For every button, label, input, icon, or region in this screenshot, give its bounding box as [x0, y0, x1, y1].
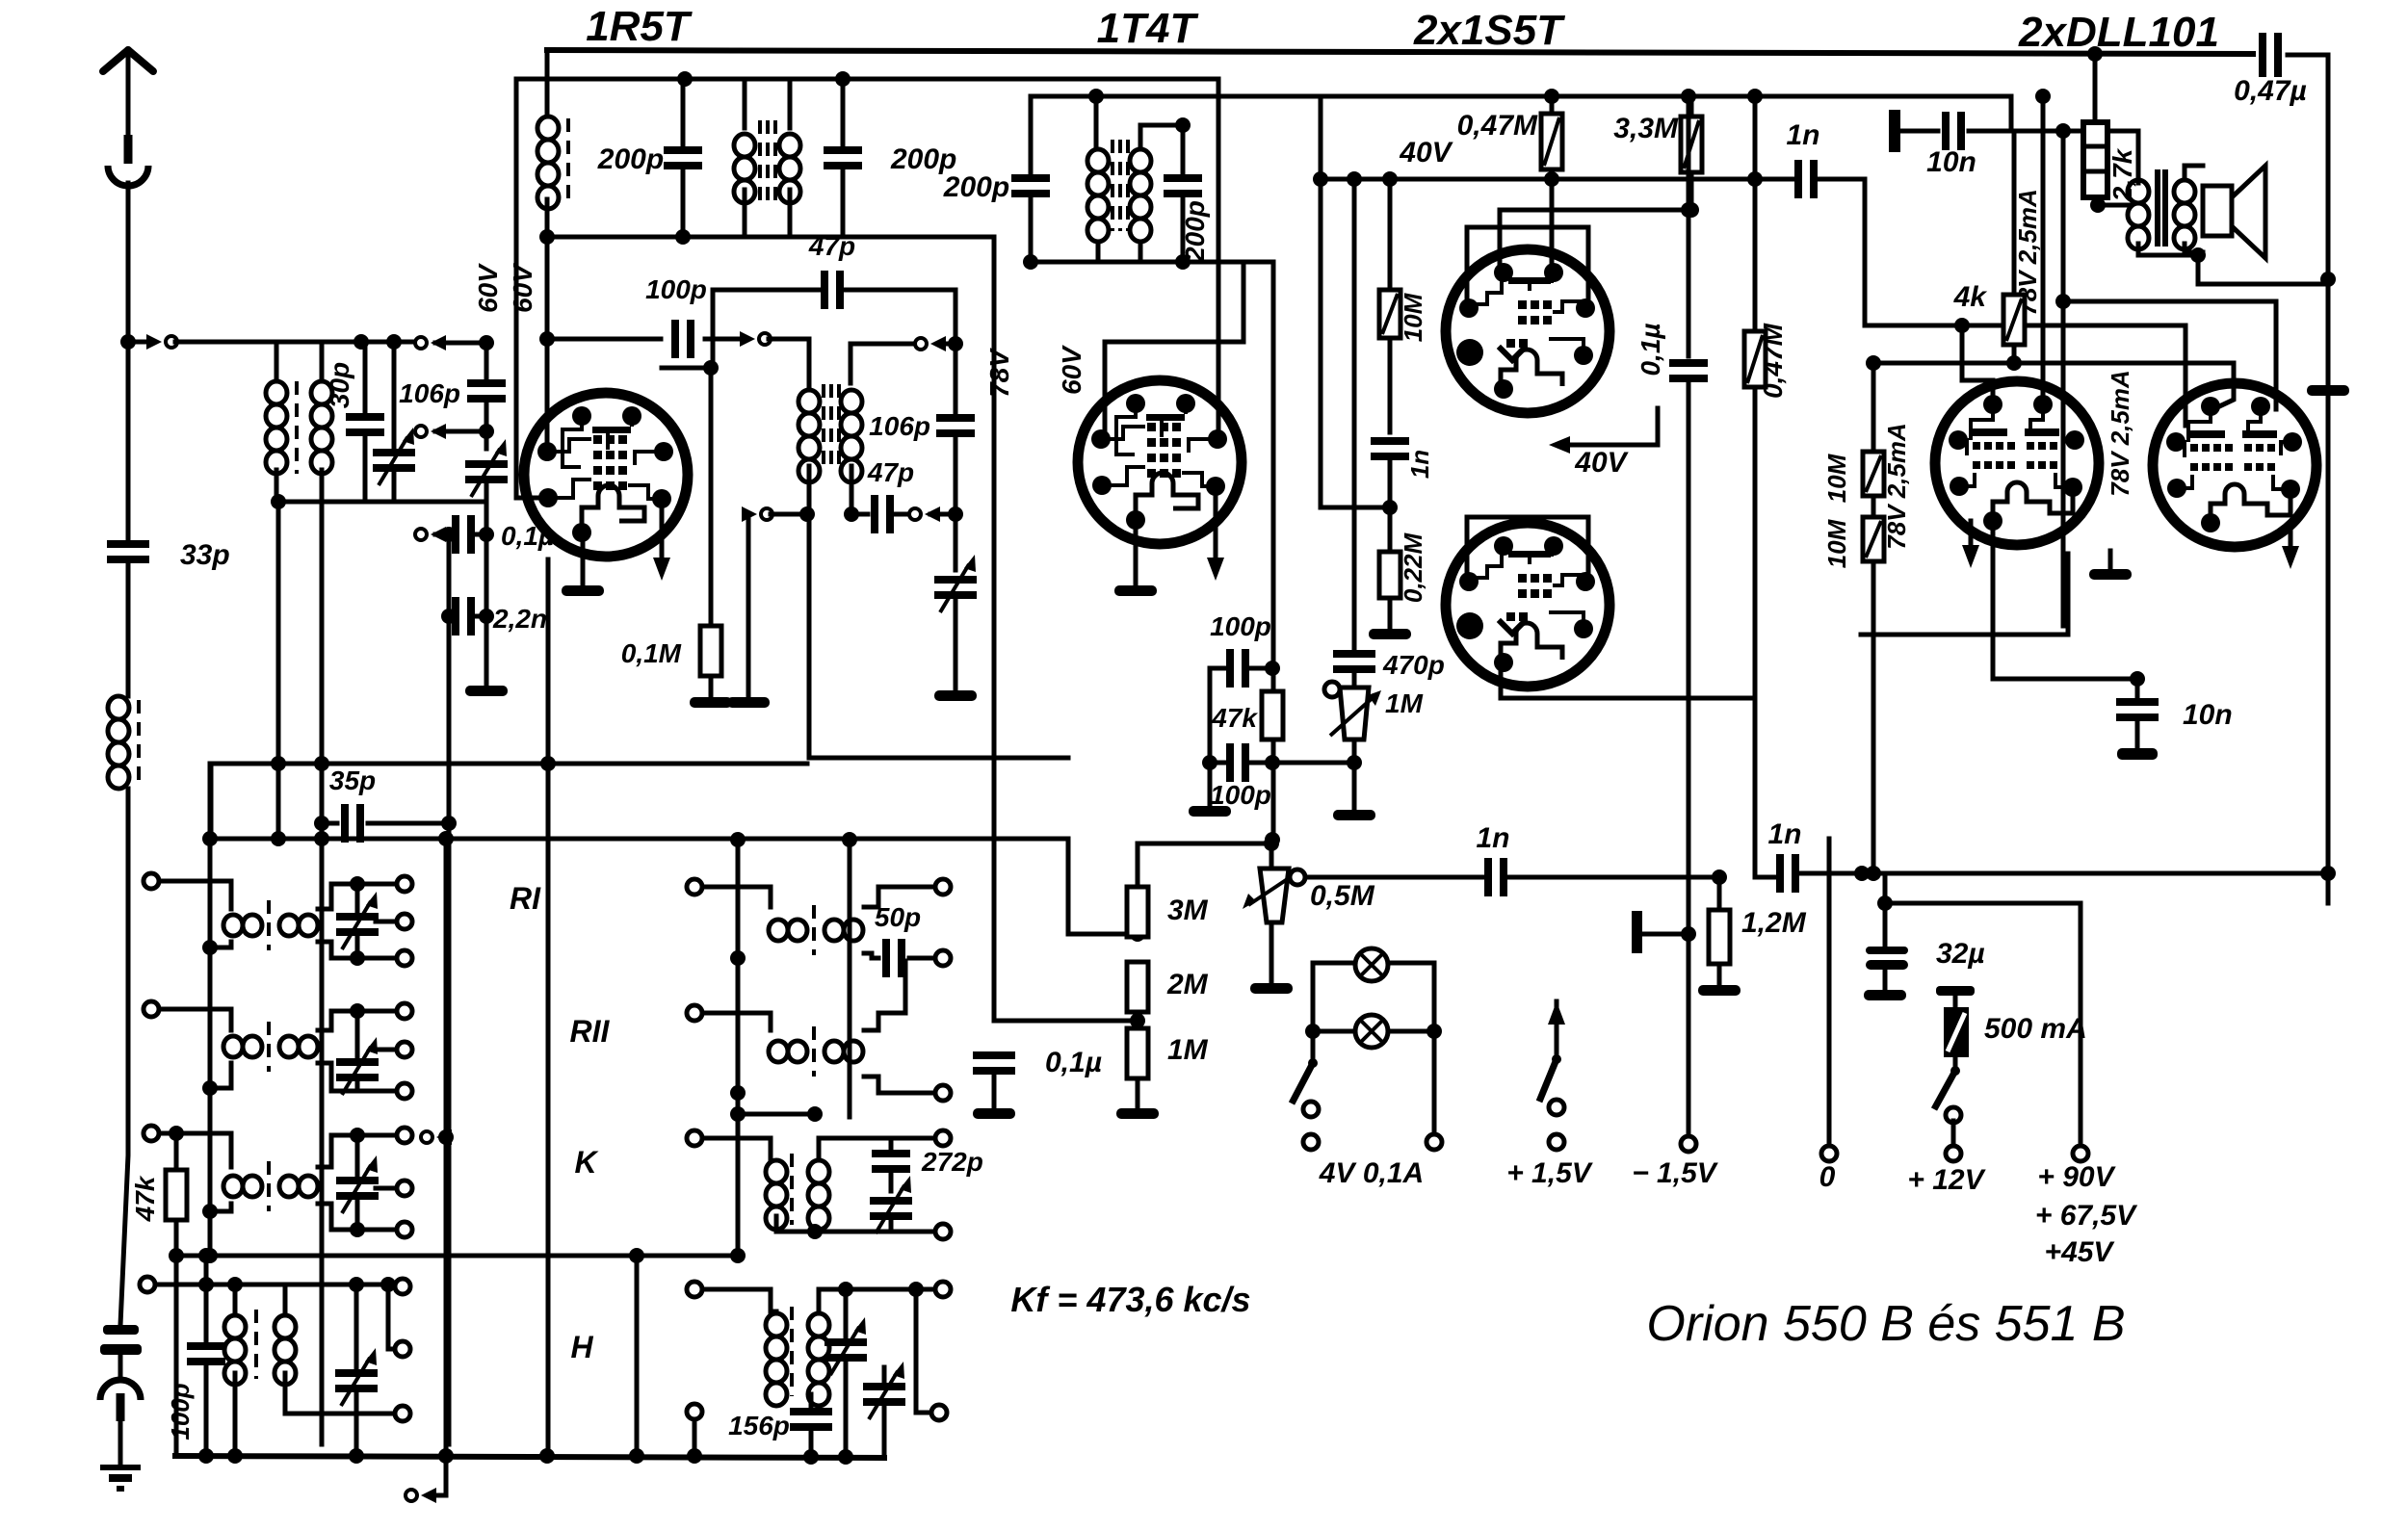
terminal mid K right bot — [935, 1224, 951, 1239]
terminal RI left — [144, 873, 159, 889]
resistor 1,2M — [1709, 910, 1730, 964]
wire screen bus 40V — [1031, 94, 2011, 99]
inductor antenna LW coil — [108, 696, 129, 789]
resistor 2M — [1127, 962, 1148, 1012]
svg-text:60V: 60V — [1057, 345, 1086, 395]
wire K mid stub — [376, 1186, 397, 1191]
wire IF1 sec bottom — [850, 466, 854, 514]
svg-text:50p: 50p — [875, 902, 921, 932]
wire long vertical to bottom bus — [447, 534, 452, 1444]
resistor 2,7k — [2083, 122, 2107, 197]
wire 32u top — [1883, 873, 1888, 947]
svg-text:156p: 156p — [728, 1411, 790, 1440]
wire mid col right leg — [848, 840, 852, 1117]
switch power — [1950, 1066, 1960, 1076]
svg-text:Kf = 473,6 kc/s: Kf = 473,6 kc/s — [1010, 1280, 1250, 1319]
wire 2,7k top — [2093, 54, 2098, 122]
capacitor plate 10n B — [2117, 748, 2158, 760]
terminal RII left — [144, 1001, 159, 1017]
wire mid col link — [176, 1254, 738, 1259]
fuse 500mA — [1944, 1007, 1969, 1057]
wire 35p left — [322, 821, 337, 826]
wire V3 frame — [1467, 227, 1588, 304]
connector osc grid — [740, 331, 771, 347]
capacitor 156p — [790, 1408, 832, 1431]
wire IF2 to V2 grid — [1105, 262, 1243, 440]
ground V1 cathode — [562, 585, 604, 596]
connector bottom plug — [406, 1488, 436, 1503]
wire 30p top lead — [363, 342, 368, 416]
svg-text:200p: 200p — [597, 143, 664, 175]
wire 100p leg bottom — [204, 1362, 209, 1456]
wire IF1 sec top lead — [849, 344, 853, 383]
capacitor 0,47u coupling — [2259, 33, 2282, 77]
capacitor 50p — [882, 939, 905, 977]
wire tank box bottom — [547, 235, 994, 240]
wire V3 top pin stub — [1498, 210, 1503, 269]
wire 47p to detector tap — [845, 290, 955, 344]
svg-text:500 mA: 500 mA — [1984, 1013, 2087, 1045]
terminal 1M pot — [1324, 682, 1340, 697]
tube V2 1T4T IF amp — [1078, 380, 1242, 544]
node speaker return — [2320, 272, 2336, 287]
wire RI out top — [318, 884, 397, 909]
wire V3 top to -1,5V line — [1500, 208, 1688, 213]
wire 40V feed vertical — [1319, 96, 1323, 507]
svg-text:1n: 1n — [1786, 119, 1819, 151]
wire 3,3M top — [1689, 96, 1694, 117]
terminal RII right mid — [397, 1042, 412, 1057]
node bottom right bus — [2320, 866, 2336, 881]
svg-text:0,47M: 0,47M — [1457, 110, 1538, 142]
resistor 47k band — [166, 1170, 187, 1220]
wire 2,7k bottom — [2095, 197, 2130, 205]
svg-text:47k: 47k — [130, 1175, 160, 1222]
resistor 10M A — [1863, 452, 1884, 496]
capacitor 0,1u det — [1669, 359, 1708, 382]
wire to 106p — [435, 341, 486, 346]
ground 0,5M — [1250, 983, 1293, 994]
wire lamp right leg — [1432, 1031, 1437, 1134]
terminal K right mid — [397, 1181, 412, 1196]
wire mid col left leg — [736, 840, 741, 1256]
capacitor feedthrough plate — [1632, 911, 1642, 953]
svg-text:− 1,5V: − 1,5V — [1632, 1157, 1719, 1189]
svg-text:35p: 35p — [329, 765, 376, 795]
terminal H right bot — [395, 1406, 410, 1421]
wire to junction 106p bottom — [435, 429, 486, 434]
terminal +12V — [1946, 1146, 1961, 1161]
wire AVC corner — [209, 764, 214, 839]
svg-text:2,7k: 2,7k — [2107, 147, 2137, 202]
svg-text:0,1µ: 0,1µ — [1045, 1047, 1102, 1078]
svg-text:100p: 100p — [645, 274, 707, 304]
wire AF to 1,2M — [1508, 875, 1723, 880]
svg-text:1,2M: 1,2M — [1741, 907, 1807, 939]
svg-text:1n: 1n — [1476, 822, 1509, 854]
terminal mid RI right bot — [935, 950, 951, 966]
wire fuse top — [1953, 996, 1958, 1007]
wire 0,47M lower to V4 — [1753, 387, 1758, 698]
svg-text:10M: 10M — [1822, 453, 1851, 503]
svg-text:47p: 47p — [808, 231, 855, 261]
terminal RI right top — [397, 876, 412, 892]
capacitor 100p osc grid — [671, 320, 694, 358]
capacitor 1n C — [1484, 858, 1507, 896]
wire 1M to ground — [1352, 740, 1357, 809]
connector K — [421, 1129, 452, 1145]
ground 100p block — [1189, 806, 1231, 817]
wire AF line — [1305, 875, 1483, 880]
svg-text:1R5T: 1R5T — [586, 3, 693, 50]
wire V4 cathode to 0,47M lower — [1501, 662, 1755, 698]
wire to earth — [118, 1421, 123, 1466]
wire V6 filament lead — [2289, 523, 2293, 546]
terminal 0,5M wiper — [1290, 869, 1305, 885]
wire 106p top — [484, 343, 489, 382]
svg-text:+45V: +45V — [2045, 1236, 2116, 1268]
svg-text:1M: 1M — [1167, 1034, 1209, 1066]
svg-text:78V 2,5mA: 78V 2,5mA — [1882, 423, 1911, 550]
wire 10n A — [1900, 129, 1938, 134]
terminal RI right mid — [397, 914, 412, 929]
capacitor 1n B — [1371, 437, 1409, 460]
capacitor plate 10n A — [1889, 110, 1900, 152]
arrow V6 filament — [2282, 546, 2299, 569]
wire K prim return — [210, 1204, 231, 1211]
svg-text:100p: 100p — [1210, 611, 1271, 641]
wire V5 to 10n B — [1993, 521, 2137, 679]
wire right edge vertical — [2288, 55, 2328, 903]
wire 10n B bottom — [2135, 718, 2140, 747]
svg-text:100p: 100p — [1210, 780, 1271, 810]
wire 10M C to 1n — [1388, 338, 1393, 432]
svg-text:470p: 470p — [1382, 650, 1445, 680]
wire V5 grid — [1962, 325, 1993, 405]
wire H coil top — [233, 1284, 238, 1315]
wire prim bottom — [2138, 244, 2198, 255]
svg-text:30p: 30p — [325, 362, 354, 408]
ground right edge — [2307, 385, 2349, 396]
terminal K right top — [397, 1128, 412, 1143]
ground oscillator trimmer — [465, 686, 508, 696]
capacitor 47p B — [871, 495, 894, 533]
arrow V2 filament — [1207, 558, 1224, 581]
terminal mid RI right top — [935, 879, 951, 895]
wire 40V lower — [1570, 408, 1658, 445]
terminal switch lower — [1946, 1107, 1961, 1123]
inductor antenna coil secondary — [311, 381, 332, 474]
wire V2 cathode ground lead — [1134, 520, 1139, 584]
wire AVC bus — [211, 837, 1068, 842]
resistor 0,1M — [700, 626, 721, 676]
terminal mid RII left — [687, 1005, 702, 1021]
wire 10M top — [1871, 363, 1876, 452]
capacitor 30p — [346, 413, 384, 436]
wire RII to 50p node — [903, 961, 908, 1013]
svg-text:33p: 33p — [180, 539, 230, 571]
wire AVC upper left — [211, 762, 636, 766]
terminal lamp switch B — [1303, 1134, 1319, 1150]
capacitor 35p — [341, 804, 364, 843]
trimmer mid H2 — [863, 1362, 905, 1419]
svg-text:Orion 550 B és 551 B: Orion 550 B és 551 B — [1646, 1296, 2125, 1352]
capacitor 1n D — [1776, 854, 1799, 893]
wire antenna to connector — [128, 340, 154, 345]
svg-text:106p: 106p — [869, 411, 930, 441]
wire det tap — [1321, 506, 1390, 510]
wire trimmer H1 top — [844, 1289, 849, 1338]
capacitor 32u electrolytic — [1866, 947, 1908, 954]
resistor 3,3M — [1681, 117, 1702, 172]
wire AVC to divider — [1068, 839, 1138, 934]
wire 60V screen feed — [516, 79, 548, 498]
svg-text:3M: 3M — [1167, 895, 1209, 926]
wire IF2 bottom — [1031, 260, 1273, 265]
wire 10n to transformer — [1969, 129, 2138, 134]
wire osc coil bottom to V1 — [545, 199, 550, 453]
svg-text:4V 0,1A: 4V 0,1A — [1319, 1157, 1424, 1189]
trimmer RI — [336, 892, 379, 949]
wire mid H right bot terminal — [916, 1289, 931, 1413]
wire AVC upper right — [636, 762, 807, 766]
svg-text:10n: 10n — [2183, 699, 2233, 731]
wire RI mid stub — [376, 920, 397, 924]
wire 100p feed — [547, 337, 661, 342]
trimmer mid H1 — [824, 1317, 867, 1375]
wire to IF trimmer — [930, 512, 955, 517]
capacitor earth antenna plates — [103, 1325, 139, 1335]
tube V4 1S5T det/AF 2 — [1446, 523, 1610, 687]
svg-text:2M: 2M — [1166, 969, 1209, 1000]
wire RI prim return — [210, 942, 231, 947]
inductor oscillator coil — [537, 117, 559, 209]
terminal H right mid — [395, 1341, 410, 1357]
svg-text:K: K — [574, 1145, 599, 1180]
capacitor 106p second — [936, 414, 975, 437]
svg-text:10n: 10n — [1926, 146, 1976, 178]
capacitor 106p osc — [467, 379, 506, 402]
wire 156p bottom — [809, 1428, 814, 1457]
wire 100p A left — [1210, 666, 1225, 671]
wire 4k rail to V6 grid — [1873, 363, 2234, 408]
svg-text:10M: 10M — [1822, 518, 1851, 568]
wire mid H left bot leg — [693, 1419, 697, 1456]
wire secondary bottom bus — [276, 470, 486, 502]
capacitor 0,1u grid — [452, 515, 475, 554]
svg-text:0,1M: 0,1M — [621, 638, 682, 668]
svg-text:1n: 1n — [1405, 450, 1434, 479]
wire 106p to trimmer — [954, 434, 958, 570]
speaker — [2203, 186, 2232, 236]
svg-text:RI: RI — [510, 881, 541, 916]
ground 32u — [1864, 990, 1906, 1000]
svg-text:78V 2,5mA: 78V 2,5mA — [2106, 370, 2134, 497]
wire 78V AVC vertical — [992, 237, 997, 1007]
wire to +90V terminal — [1885, 903, 2081, 1146]
wire 0,1M top — [709, 368, 714, 621]
transformer mid H — [766, 1313, 787, 1406]
wire between 10M — [1871, 496, 1876, 517]
ground 0,1u AF — [973, 1108, 1015, 1119]
transformer H left — [224, 1315, 246, 1385]
svg-text:1M: 1M — [1385, 688, 1424, 718]
resistor 10M C — [1379, 290, 1400, 338]
terminal RII right top — [397, 1003, 412, 1019]
resistor 0,47M lower — [1744, 331, 1766, 387]
ground 0,22M — [1369, 629, 1411, 639]
terminal +1,5V — [1549, 1134, 1564, 1150]
wire H sec bottom — [285, 1373, 395, 1414]
wire trimmer bottom lead — [392, 472, 397, 502]
terminal lamp right — [1426, 1134, 1442, 1150]
svg-text:+ 1,5V: + 1,5V — [1506, 1157, 1594, 1189]
resistor 47k — [1262, 691, 1283, 740]
ground above fuse — [1936, 986, 1975, 996]
wire V4 frame — [1467, 517, 1588, 579]
wire H sec top — [283, 1284, 288, 1315]
wire grid line top — [175, 340, 424, 345]
arrow 40V lower — [1549, 436, 1570, 454]
terminal H right top — [395, 1279, 410, 1294]
wire trimmer top lead — [392, 342, 397, 449]
terminal mid K right top — [935, 1130, 951, 1146]
wire lamp A right — [1388, 961, 1434, 966]
node grid top — [479, 335, 494, 350]
svg-text:100p: 100p — [166, 1383, 195, 1440]
svg-text:RII: RII — [570, 1014, 611, 1049]
svg-text:+ 67,5V: + 67,5V — [2035, 1200, 2138, 1232]
svg-text:47k: 47k — [1211, 703, 1258, 733]
wire mid RII bottom link — [738, 1112, 815, 1117]
svg-text:0,47µ: 0,47µ — [2234, 75, 2307, 107]
wire IF1 to AVC line — [809, 514, 1068, 758]
wire LW coil down — [120, 789, 128, 1325]
capacitor 100p AGC A — [1226, 649, 1249, 688]
wire RI in — [159, 881, 231, 909]
wire 35p right — [368, 821, 449, 826]
svg-text:0,5M: 0,5M — [1310, 880, 1375, 912]
svg-text:1T4T: 1T4T — [1097, 5, 1199, 52]
wire V6 plate link — [2063, 301, 2276, 409]
wire trimmer to ground — [484, 483, 489, 688]
wire 30p bottom lead — [363, 433, 368, 502]
capacitor 33p antenna — [107, 540, 149, 563]
lamp B — [1355, 1015, 1388, 1048]
wire 106p bottom — [484, 400, 489, 449]
wire 40V rail — [1321, 177, 1793, 182]
transformer IF1 — [798, 390, 820, 482]
capacitor 272p — [872, 1150, 910, 1173]
wire V5 filament lead — [1969, 521, 1974, 545]
svg-text:2xDLL101: 2xDLL101 — [2018, 9, 2219, 56]
svg-text:200p: 200p — [943, 171, 1009, 203]
wire IF2 sec top — [1140, 125, 1183, 149]
svg-text:106p: 106p — [399, 378, 460, 408]
wire V5 cathode loop — [1861, 554, 2068, 635]
ground IF1 trimmer — [934, 690, 977, 701]
capacitor 2,2n — [452, 597, 475, 636]
resistor 4k — [2003, 295, 2025, 345]
svg-text:40V: 40V — [1574, 447, 1629, 479]
wire antenna down to 33p — [126, 342, 131, 543]
wire 0,47M-2 top — [1753, 96, 1758, 331]
tube V6 DLL101 output B — [2153, 383, 2316, 547]
trimmer mid K — [870, 1176, 912, 1233]
connector IF1 return — [742, 506, 772, 522]
transformer RII — [223, 1036, 262, 1057]
resistor 0,47M — [1541, 114, 1562, 169]
terminal RII right bot — [397, 1083, 412, 1099]
tube V3 1S5T det/AF — [1446, 249, 1610, 413]
wire transformer return bus — [208, 764, 213, 1256]
wire sec bottom — [2185, 244, 2203, 252]
wire 100p leg top — [204, 1256, 209, 1345]
ground between DLL — [2089, 569, 2132, 580]
svg-text:60V: 60V — [473, 263, 503, 313]
potentiometer 0,5M volume — [1260, 869, 1289, 922]
svg-text:1n: 1n — [1767, 818, 1801, 850]
wire -1,5V vertical — [1687, 379, 1691, 934]
terminal +1,5V switch — [1549, 1100, 1564, 1115]
connector wave switch 2 — [415, 424, 446, 439]
wire pot top — [1269, 843, 1274, 869]
wire to IF1 primary — [769, 339, 809, 383]
wire grid return vertical — [546, 559, 551, 1456]
wire V4 line down — [1753, 698, 1758, 877]
capacitor 47p A — [821, 271, 844, 309]
transformer oscillator tank — [734, 134, 755, 203]
wire tuning line down — [320, 470, 325, 1444]
wire V1 cathode to ground — [581, 532, 586, 585]
tube V1 1R5T converter — [524, 393, 688, 557]
terminal RI right bot — [397, 950, 412, 966]
transformer mid K — [766, 1160, 787, 1230]
wire 0 line — [1827, 839, 1832, 1146]
wire RII prim return — [210, 1063, 231, 1088]
wire 1n A to DLL grids — [1819, 179, 2186, 426]
wire 470p line — [1352, 179, 1357, 654]
wire 47k to bus — [174, 1220, 179, 1456]
transformer RI — [223, 915, 262, 936]
ground 1M pot — [1333, 810, 1375, 820]
wire to lamp switch — [1311, 1031, 1316, 1063]
wire 0,1u AF tap — [994, 1007, 1138, 1021]
terminal mid RI left — [687, 879, 702, 895]
ground 1,2M — [1698, 985, 1741, 996]
terminal mid H right bot — [931, 1405, 947, 1420]
svg-text:2x1S5T: 2x1S5T — [1413, 7, 1565, 54]
wire lamp rectangle — [1311, 963, 1316, 1031]
trimmer IF1 — [934, 555, 977, 612]
terminal mid H right top — [935, 1282, 951, 1297]
wire — [744, 79, 746, 134]
ground divider — [1116, 1108, 1159, 1119]
connector 47p B — [909, 506, 940, 522]
capacitor 200p tank B — [824, 146, 862, 169]
connector wave switch 3 — [415, 527, 446, 542]
wire IF1 secondary return — [746, 514, 751, 696]
wire 33p to LW coil — [126, 560, 131, 696]
wire 4k top — [2012, 131, 2017, 295]
wire V1 plate out — [662, 366, 713, 371]
capacitor 100p H — [187, 1342, 225, 1365]
wire IF2 prim top lead — [1094, 96, 1099, 149]
wire 3,3M bottom — [1689, 172, 1694, 210]
wire bottom bus — [175, 1456, 884, 1458]
ground earth bars — [100, 1465, 141, 1470]
ground V2 cathode — [1114, 585, 1157, 596]
